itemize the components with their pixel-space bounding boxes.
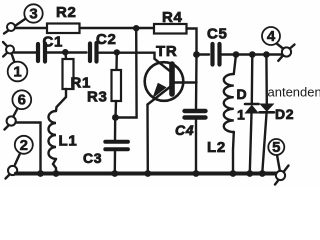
svg-text:2: 2: [20, 137, 28, 154]
terminal 2 connector: [6, 154, 21, 179]
junction rail C4: [193, 170, 200, 177]
resistor R1: [63, 53, 92, 92]
inductor L1: [49, 111, 78, 173]
wire R4 to base node: [187, 29, 197, 55]
svg-text:R2: R2: [56, 4, 77, 21]
junction rail D2: [259, 170, 266, 177]
capacitor C4: [175, 111, 206, 173]
svg-text:L1: L1: [59, 133, 78, 150]
node 1 label: [8, 62, 28, 82]
wire terminal3 to R2: [15, 27, 47, 29]
diode D1: [237, 55, 259, 173]
junction rail L1: [53, 170, 60, 177]
wire R1 to L1 top: [56, 89, 66, 111]
wire terminal1 to C1: [14, 51, 36, 53]
node 3 label: [24, 4, 42, 22]
svg-text:antenden: antenden: [268, 85, 320, 100]
svg-text:D2: D2: [275, 106, 294, 122]
junction rail C3: [111, 170, 118, 177]
wire base node vertical: [195, 55, 198, 109]
terminal 1 connector: [3, 42, 15, 63]
node 5 label: [268, 139, 284, 156]
svg-text:C2: C2: [96, 31, 117, 48]
junction rail emitter: [144, 170, 151, 177]
ground rail: [16, 172, 277, 176]
svg-text:C5: C5: [207, 26, 228, 43]
terminal 4 connector: [276, 43, 295, 61]
junction base node: [193, 51, 200, 58]
wire C2 to transistor collector: [99, 53, 155, 59]
junction rail D1: [246, 170, 253, 177]
svg-text:D: D: [237, 86, 248, 102]
terminal 5 connector: [275, 155, 289, 185]
svg-text:5: 5: [272, 139, 280, 156]
svg-text:L2: L2: [207, 139, 226, 156]
junction rail L2: [230, 170, 237, 177]
junction rail T6: [37, 170, 44, 177]
junction D1 top: [249, 51, 256, 58]
wire emitter to rail: [146, 105, 149, 173]
wire R2 to R4: [80, 27, 155, 29]
svg-text:R3: R3: [87, 89, 108, 106]
node A junction: [62, 49, 68, 55]
resistor R3: [87, 53, 121, 118]
junction top rail: [133, 25, 139, 31]
node B junction: [114, 49, 120, 55]
svg-text:1: 1: [237, 107, 246, 123]
diode D2: [260, 55, 295, 173]
resistor R4: [154, 9, 187, 34]
svg-text:C3: C3: [83, 150, 102, 166]
capacitor C1: [38, 34, 63, 62]
svg-text:6: 6: [18, 92, 26, 109]
terminal 3 connector: [4, 18, 27, 34]
svg-text:1: 1: [13, 64, 21, 81]
junction D2 top: [263, 51, 270, 58]
node 2 label: [15, 136, 33, 154]
junction L2 top: [233, 51, 240, 58]
svg-text:TR: TR: [156, 43, 177, 60]
junction R3 bottom: [112, 114, 119, 121]
transistor TR: [145, 43, 197, 105]
svg-text:3: 3: [29, 6, 37, 23]
svg-text:4: 4: [267, 28, 276, 45]
resistor R2: [47, 4, 80, 33]
node 6 label: [12, 90, 31, 109]
svg-text:C1: C1: [43, 34, 64, 51]
terminal 6 connector: [5, 109, 18, 130]
node 4 label: [262, 27, 280, 45]
svg-text:C4: C4: [175, 122, 194, 138]
wire terminal6 to ground rail: [16, 123, 41, 173]
inductor L2: [207, 55, 236, 173]
capacitor C2: [90, 31, 117, 62]
capacitor C3: [83, 118, 128, 173]
svg-text:R4: R4: [162, 9, 183, 26]
wire C1 to C2: [47, 51, 87, 53]
wire top rail down to R3 bottom node: [115, 28, 136, 118]
capacitor C5: [197, 26, 282, 65]
